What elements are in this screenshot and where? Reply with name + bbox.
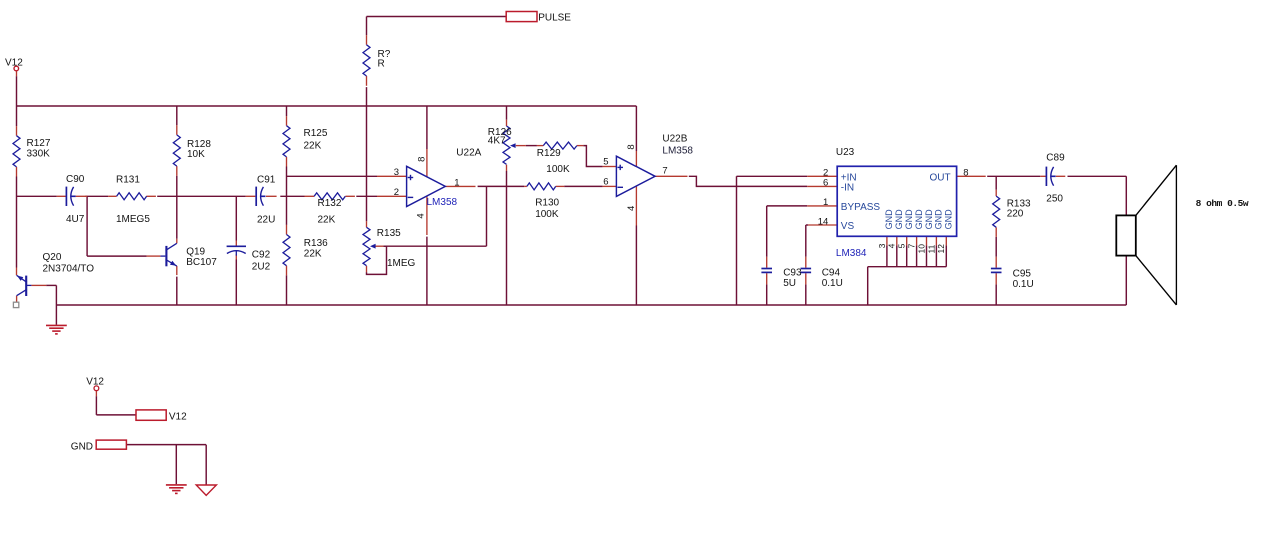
svg-text:0.1U: 0.1U xyxy=(1013,279,1034,290)
svg-text:1MEG: 1MEG xyxy=(387,258,416,269)
svg-text:LM358: LM358 xyxy=(427,197,458,208)
svg-text:U22A: U22A xyxy=(456,148,481,159)
svg-text:4: 4 xyxy=(887,243,897,248)
svg-text:1: 1 xyxy=(454,177,459,188)
svg-text:C90: C90 xyxy=(66,174,85,185)
svg-text:BYPASS: BYPASS xyxy=(841,202,881,213)
svg-text:8 ohm 0.5w: 8 ohm 0.5w xyxy=(1196,198,1249,209)
svg-text:PULSE: PULSE xyxy=(538,13,571,24)
svg-text:3: 3 xyxy=(877,243,887,248)
svg-text:V12: V12 xyxy=(86,376,104,387)
svg-text:2: 2 xyxy=(394,187,399,198)
svg-text:GND: GND xyxy=(934,209,944,230)
svg-text:BC107: BC107 xyxy=(186,257,217,268)
svg-text:22K: 22K xyxy=(318,215,336,226)
svg-text:GND: GND xyxy=(884,209,894,230)
svg-text:LM384: LM384 xyxy=(836,248,867,259)
svg-text:R125: R125 xyxy=(304,128,328,139)
svg-text:GND: GND xyxy=(904,209,914,230)
svg-text:5U: 5U xyxy=(783,278,796,289)
svg-text:2N3704/TO: 2N3704/TO xyxy=(43,264,95,275)
svg-text:100K: 100K xyxy=(546,164,570,175)
svg-text:R135: R135 xyxy=(377,228,401,239)
svg-text:10K: 10K xyxy=(187,149,205,160)
svg-text:Q20: Q20 xyxy=(43,252,62,263)
svg-text:R: R xyxy=(378,59,385,70)
svg-text:1: 1 xyxy=(823,197,828,208)
svg-text:8: 8 xyxy=(963,167,968,178)
svg-text:U23: U23 xyxy=(836,147,855,158)
svg-text:GND: GND xyxy=(924,209,934,230)
svg-text:100K: 100K xyxy=(535,209,559,220)
svg-text:10: 10 xyxy=(916,244,926,254)
svg-text:7: 7 xyxy=(907,243,917,248)
svg-text:V12: V12 xyxy=(5,57,23,68)
svg-text:4U7: 4U7 xyxy=(66,214,85,225)
svg-text:GND: GND xyxy=(71,441,93,452)
svg-text:7: 7 xyxy=(662,165,667,176)
svg-text:GND: GND xyxy=(914,209,924,230)
svg-text:250: 250 xyxy=(1046,193,1063,204)
svg-text:LM358: LM358 xyxy=(662,145,693,156)
svg-text:C94: C94 xyxy=(822,268,841,279)
svg-text:R136: R136 xyxy=(304,238,328,249)
svg-text:5: 5 xyxy=(603,157,608,168)
svg-text:22K: 22K xyxy=(304,141,322,152)
svg-text:R132: R132 xyxy=(318,198,342,209)
svg-text:4: 4 xyxy=(626,206,637,211)
svg-text:12: 12 xyxy=(936,244,946,254)
svg-text:8: 8 xyxy=(626,144,637,149)
svg-text:14: 14 xyxy=(818,216,829,227)
svg-text:VS: VS xyxy=(841,221,855,232)
svg-text:Q19: Q19 xyxy=(186,247,205,258)
svg-text:11: 11 xyxy=(926,244,936,253)
svg-text:4: 4 xyxy=(415,213,426,218)
svg-text:1MEG5: 1MEG5 xyxy=(116,214,150,225)
svg-text:C92: C92 xyxy=(252,250,271,261)
svg-text:8: 8 xyxy=(417,157,428,162)
svg-text:C89: C89 xyxy=(1046,153,1065,164)
svg-text:GND: GND xyxy=(944,209,954,230)
svg-text:C91: C91 xyxy=(257,174,276,185)
svg-text:22U: 22U xyxy=(257,214,275,225)
svg-text:3: 3 xyxy=(394,167,399,178)
svg-text:220: 220 xyxy=(1007,209,1024,220)
svg-text:22K: 22K xyxy=(304,249,322,260)
svg-text:R131: R131 xyxy=(116,175,140,186)
svg-text:4K7: 4K7 xyxy=(488,136,506,147)
svg-text:V12: V12 xyxy=(169,411,187,422)
svg-text:R129: R129 xyxy=(537,148,561,159)
svg-text:C95: C95 xyxy=(1013,269,1032,280)
svg-text:-IN: -IN xyxy=(841,182,854,193)
svg-text:330K: 330K xyxy=(27,148,51,159)
svg-text:0.1U: 0.1U xyxy=(822,278,843,289)
svg-text:C93: C93 xyxy=(783,268,802,279)
svg-text:GND: GND xyxy=(894,209,904,230)
svg-text:6: 6 xyxy=(823,178,828,189)
svg-text:OUT: OUT xyxy=(929,172,950,183)
svg-text:U22B: U22B xyxy=(662,134,687,145)
svg-text:R130: R130 xyxy=(535,198,559,209)
svg-text:5: 5 xyxy=(897,243,907,248)
svg-text:6: 6 xyxy=(603,177,608,188)
svg-text:2U2: 2U2 xyxy=(252,261,271,272)
